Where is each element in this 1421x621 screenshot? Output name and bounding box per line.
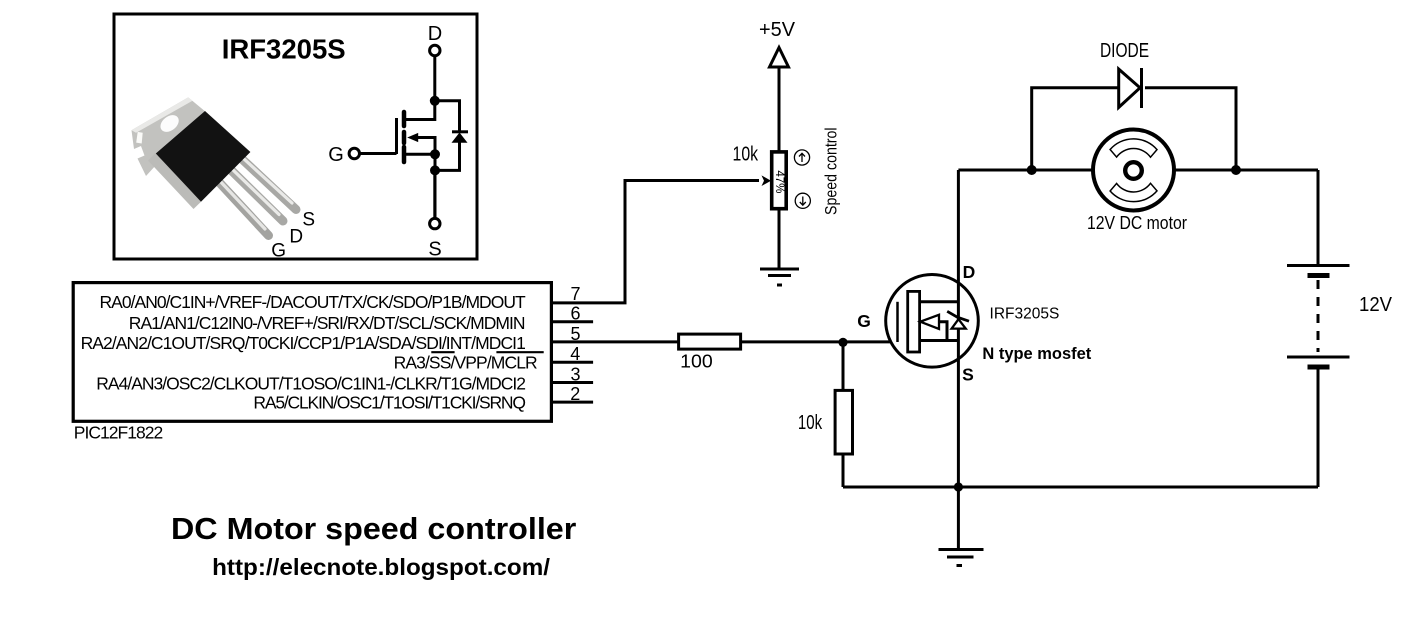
svg-text:12V: 12V [1359,294,1393,316]
svg-text:IRF3205S: IRF3205S [222,34,346,65]
svg-text:100: 100 [680,351,713,372]
svg-text:S: S [302,210,315,231]
svg-text:N type mosfet: N type mosfet [982,344,1091,363]
svg-text:D: D [289,226,303,247]
svg-text:G: G [857,311,871,331]
svg-text:12V DC motor: 12V DC motor [1087,213,1187,233]
svg-text:RA4/AN3/OSC2/CLKOUT/T1OSO/C1IN: RA4/AN3/OSC2/CLKOUT/T1OSO/C1IN1-/CLKR/T1… [96,373,526,393]
svg-text:S: S [962,365,974,385]
svg-text:RA2/AN2/C1OUT/SRQ/T0CKI/CCP1/P: RA2/AN2/C1OUT/SRQ/T0CKI/CCP1/P1A/SDA/SDI… [81,333,526,353]
svg-text:10k: 10k [733,143,759,165]
svg-text:RA5/CLKIN/OSC1/T1OSI/T1CKI/SRN: RA5/CLKIN/OSC1/T1OSI/T1CKI/SRNQ [253,392,526,412]
svg-text:D: D [428,23,442,45]
svg-text:7: 7 [571,284,581,304]
svg-text:D: D [963,262,976,282]
svg-text:RA0/AN0/C1IN+/VREF-/DACOUT/TX/: RA0/AN0/C1IN+/VREF-/DACOUT/TX/CK/SDO/P1B… [100,292,526,312]
svg-text:DC Motor speed controller: DC Motor speed controller [171,512,576,546]
svg-text:47%: 47% [773,170,785,193]
svg-text:S: S [428,239,441,261]
svg-text:G: G [328,144,344,166]
svg-text:+5V: +5V [759,19,796,41]
svg-text:DIODE: DIODE [1100,40,1149,62]
svg-text:IRF3205S: IRF3205S [990,306,1060,323]
svg-text:RA3/SS/VPP/MCLR: RA3/SS/VPP/MCLR [394,353,538,373]
svg-text:RA1/AN1/C12IN0-/VREF+/SRI/RX/D: RA1/AN1/C12IN0-/VREF+/SRI/RX/DT/SCL/SCK/… [129,313,526,333]
svg-text:PIC12F1822: PIC12F1822 [74,423,163,443]
svg-text:10k: 10k [798,412,823,434]
svg-text:G: G [271,240,286,261]
svg-text:Speed control: Speed control [823,127,841,215]
svg-text:http://elecnote.blogspot.com/: http://elecnote.blogspot.com/ [212,554,551,580]
